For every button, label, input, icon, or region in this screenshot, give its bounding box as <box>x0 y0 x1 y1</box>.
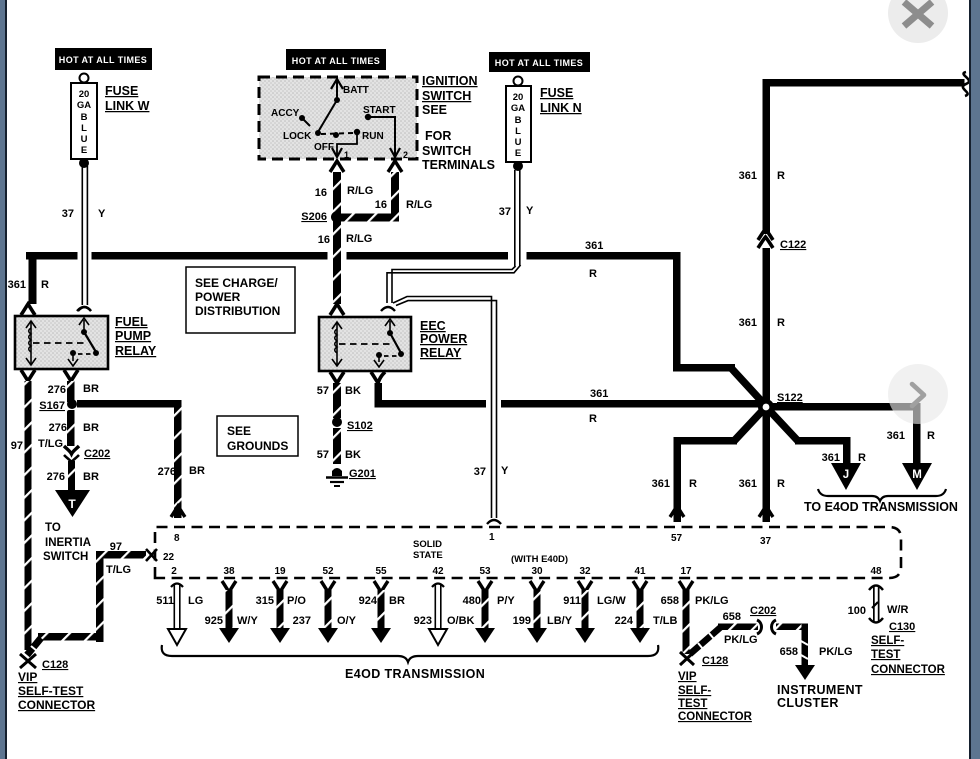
svg-text:SELF-TEST: SELF-TEST <box>18 684 84 698</box>
svg-text:TO: TO <box>45 522 61 534</box>
svg-text:SWITCH: SWITCH <box>422 144 471 158</box>
svg-text:R: R <box>689 478 697 490</box>
label 361 R (above terminal 57) <box>652 478 697 490</box>
svg-text:315: 315 <box>256 595 274 607</box>
label 276 BR (lower) <box>47 471 99 483</box>
svg-text:P/O: P/O <box>287 595 306 607</box>
svg-text:VIP: VIP <box>678 671 697 683</box>
svg-text:BK: BK <box>345 385 361 397</box>
box SEE GROUNDS <box>217 416 298 456</box>
wire 658 PK/LG diagonal C128 to C202 <box>690 626 722 654</box>
label 361 R (upper middle) <box>585 240 603 280</box>
svg-text:C130: C130 <box>889 621 915 633</box>
svg-text:IGNITION: IGNITION <box>422 74 478 88</box>
svg-text:FOR: FOR <box>425 129 451 143</box>
svg-text:B: B <box>81 112 88 123</box>
terminal 48 white wire 100 W/R to C130 <box>848 566 909 623</box>
connector C122 <box>758 229 806 251</box>
label 37 Y (to terminal 1) <box>474 465 509 478</box>
terminal 37 pin <box>759 506 773 517</box>
svg-text:S167: S167 <box>39 400 65 412</box>
terminal 32 wire 911 LG/W <box>563 566 626 643</box>
wire 57 BK relay to S102 <box>333 383 341 418</box>
svg-text:CONNECTOR: CONNECTOR <box>678 711 753 723</box>
fuel pump relay dashed link <box>33 342 88 344</box>
label 57 BK (lower) <box>317 449 361 461</box>
white wire elbow to EEC relay top-right pin <box>387 265 521 303</box>
ignition switch terminal 2 pin <box>388 161 402 172</box>
svg-text:HOT AT ALL TIMES: HOT AT ALL TIMES <box>292 56 380 66</box>
label VIP SELF-TEST CONNECTOR (right) <box>678 671 753 723</box>
svg-text:R: R <box>858 452 866 464</box>
svg-text:POWER: POWER <box>420 332 467 346</box>
terminal 52 wire 237 O/Y <box>293 566 357 643</box>
svg-text:20: 20 <box>513 92 524 103</box>
wire 276 BR relay to S167 <box>67 381 75 402</box>
svg-text:R/LG: R/LG <box>346 233 372 245</box>
svg-text:EEC: EEC <box>420 319 446 333</box>
ground G201 <box>326 468 376 486</box>
svg-text:W/Y: W/Y <box>237 615 258 627</box>
svg-text:E4OD TRANSMISSION: E4OD TRANSMISSION <box>345 667 485 681</box>
svg-text:START: START <box>363 105 396 116</box>
fuel pump relay bottom-left pin <box>21 370 35 381</box>
svg-text:199: 199 <box>513 615 531 627</box>
wire 361 R diagonal into S122 <box>732 369 766 406</box>
svg-text:(WITH E40D): (WITH E40D) <box>511 554 568 565</box>
svg-text:LB/Y: LB/Y <box>547 615 573 627</box>
svg-text:SEE: SEE <box>227 424 251 438</box>
svg-text:RUN: RUN <box>362 131 384 142</box>
svg-text:48: 48 <box>870 566 882 577</box>
svg-text:2: 2 <box>171 566 177 577</box>
label 276 BR (to terminal 8) <box>158 465 205 478</box>
svg-text:PK/LG: PK/LG <box>819 646 853 658</box>
svg-text:Y: Y <box>98 208 106 220</box>
svg-text:HOT AT ALL TIMES: HOT AT ALL TIMES <box>59 55 147 65</box>
label SELF-TEST CONNECTOR (C130) <box>871 635 946 676</box>
terminal 41 wire 224 T/LB <box>615 566 678 643</box>
label 37 Y (fuse link N wire) <box>499 205 534 218</box>
svg-text:GA: GA <box>77 100 91 111</box>
wire 361 R upper horizontal (segment 2) <box>347 252 509 260</box>
svg-text:41: 41 <box>634 566 646 577</box>
svg-text:R: R <box>589 413 597 425</box>
EEC relay top-right pin <box>381 307 395 311</box>
fuel pump relay switch <box>68 318 99 366</box>
svg-text:T/LG: T/LG <box>106 564 131 576</box>
svg-text:361: 361 <box>8 279 26 291</box>
wire 361 R right corner down <box>673 252 681 371</box>
svg-text:FUSE: FUSE <box>540 86 573 100</box>
terminal 55 wire 924 BR <box>359 566 405 643</box>
label SOLID STATE <box>413 539 443 561</box>
label 37 Y (fuse link W wire) <box>62 208 106 220</box>
label FUEL PUMP RELAY <box>115 315 157 358</box>
wire 361 R S122 SW diagonal branch to terminal 57 <box>674 409 765 522</box>
svg-text:16: 16 <box>318 234 330 246</box>
wire 97 T/LG outer vertical <box>25 381 32 650</box>
svg-text:POWER: POWER <box>195 290 241 304</box>
brace E4OD transmission <box>162 645 659 662</box>
svg-text:SWITCH: SWITCH <box>43 551 88 563</box>
svg-text:53: 53 <box>479 566 491 577</box>
ignition switch terminal 1 pin <box>330 161 344 172</box>
ignition switch internals <box>271 79 408 160</box>
svg-text:R/LG: R/LG <box>347 185 373 197</box>
connector squiggle at right edge <box>963 72 969 96</box>
fuel pump relay bottom-right pin <box>64 370 78 381</box>
HOT AT ALL TIMES badge 3 <box>489 52 590 72</box>
svg-text:2: 2 <box>403 150 408 160</box>
wire 16 R/LG S206 to EEC relay <box>333 221 341 304</box>
arrow J to E4OD transmission <box>831 463 861 490</box>
terminal 22 pin <box>146 549 175 563</box>
svg-text:SEE CHARGE/: SEE CHARGE/ <box>195 276 278 290</box>
label INSTRUMENT CLUSTER <box>777 683 863 710</box>
label TO INERTIA SWITCH <box>43 522 91 563</box>
wire 361 R upper horizontal (segment 1a) <box>26 252 78 260</box>
EEC relay coil <box>332 322 342 366</box>
svg-text:C128: C128 <box>42 659 68 671</box>
svg-text:237: 237 <box>293 615 311 627</box>
wire 361 R main vertical (top segment) <box>763 79 771 234</box>
white wire fuse link N down (37 Y) <box>514 170 521 266</box>
svg-text:R: R <box>777 478 785 490</box>
label 16 R/LG (right elbow) <box>375 199 433 211</box>
svg-text:925: 925 <box>205 615 223 627</box>
svg-text:LINK W: LINK W <box>105 99 150 113</box>
wire 361 R S122 down to terminal 37 <box>763 412 771 522</box>
terminal 30 wire 199 LB/Y <box>513 566 573 643</box>
label 97 T/LG (inner) <box>106 541 131 576</box>
splice S206 <box>301 211 342 223</box>
svg-text:TO E4OD TRANSMISSION: TO E4OD TRANSMISSION <box>804 500 958 514</box>
svg-text:TEST: TEST <box>871 649 900 661</box>
box SEE CHARGE/POWER DISTRIBUTION <box>186 267 295 333</box>
svg-text:224: 224 <box>615 615 634 627</box>
svg-text:361: 361 <box>739 478 757 490</box>
svg-text:42: 42 <box>432 566 444 577</box>
svg-text:658: 658 <box>723 611 741 623</box>
label 361 R (at J) <box>822 452 866 464</box>
E4OD solid state connector box <box>155 527 901 578</box>
terminal 57 pin <box>670 506 684 517</box>
wire 37 Y from fuse link W to fuel pump relay <box>78 166 91 311</box>
svg-text:R: R <box>589 268 597 280</box>
svg-text:SEE: SEE <box>422 103 447 117</box>
label VIP SELF-TEST CONNECTOR (left) <box>18 670 95 712</box>
svg-text:T/LB: T/LB <box>653 615 677 627</box>
fuel pump relay box <box>15 316 108 369</box>
terminal 53 wire 480 P/Y <box>463 566 516 643</box>
svg-text:276: 276 <box>158 466 176 478</box>
svg-text:8: 8 <box>174 533 180 544</box>
svg-text:W/R: W/R <box>887 604 908 616</box>
splice S122 junction dot <box>758 392 803 415</box>
wire 361 R S122 east branch to M <box>766 403 921 465</box>
label FUSE LINK W <box>105 84 150 113</box>
white wire branch to connector terminal 1 (37 Y) <box>393 297 497 519</box>
EEC relay dashed link <box>339 343 392 345</box>
fuse link N <box>506 77 531 172</box>
svg-text:FUSE: FUSE <box>105 84 138 98</box>
label 276 BR (above S167) <box>48 383 99 396</box>
connector C128 (left) <box>20 654 68 671</box>
svg-text:GA: GA <box>511 103 525 114</box>
connector C202 (right) <box>757 620 776 634</box>
svg-text:BK: BK <box>345 449 361 461</box>
svg-text:BR: BR <box>83 422 99 434</box>
svg-text:TERMINALS: TERMINALS <box>422 158 495 172</box>
wire 97 T/LG terminal 22 elbow to C128 <box>27 551 146 655</box>
wire 361 R left vertical to fuel pump relay <box>29 253 37 304</box>
svg-text:S206: S206 <box>301 211 327 223</box>
svg-text:STATE: STATE <box>413 550 443 561</box>
EEC power relay box <box>319 317 411 371</box>
svg-text:BR: BR <box>83 383 99 395</box>
svg-text:361: 361 <box>739 317 757 329</box>
svg-text:361: 361 <box>590 388 608 400</box>
svg-text:1: 1 <box>344 150 349 160</box>
fuel pump relay coil <box>26 321 36 365</box>
svg-text:57: 57 <box>317 385 329 397</box>
svg-text:923: 923 <box>414 615 432 627</box>
splice S102 <box>332 417 373 432</box>
svg-text:C128: C128 <box>702 655 728 667</box>
svg-text:57: 57 <box>317 449 329 461</box>
svg-text:O/Y: O/Y <box>337 615 357 627</box>
label 276 BR (below S167) <box>49 422 99 434</box>
svg-text:17: 17 <box>680 566 692 577</box>
wire 276 BR S167 to C202 <box>67 410 75 446</box>
wire 361 R S122 SE diagonal branch to J <box>769 410 851 465</box>
right page border bar <box>969 0 971 759</box>
svg-text:100: 100 <box>848 605 866 617</box>
svg-text:C202: C202 <box>84 448 110 460</box>
svg-text:S102: S102 <box>347 420 373 432</box>
left page border bar <box>0 0 5 759</box>
svg-text:BR: BR <box>83 471 99 483</box>
svg-text:B: B <box>515 115 522 126</box>
svg-text:P/Y: P/Y <box>497 595 515 607</box>
svg-text:L: L <box>81 123 87 134</box>
wire 658 PK/LG C202 to instrument cluster <box>776 624 815 681</box>
svg-text:DISTRIBUTION: DISTRIBUTION <box>195 304 280 318</box>
wire 361 R corner horizontal to S122 diagonal <box>673 364 735 372</box>
svg-text:U: U <box>81 134 88 145</box>
svg-text:R: R <box>927 430 935 442</box>
label EEC POWER RELAY <box>420 319 467 360</box>
svg-text:G201: G201 <box>349 468 376 480</box>
wire 57 BK S102 to G201 <box>333 428 341 464</box>
svg-text:BATT: BATT <box>343 85 369 96</box>
svg-text:SELF-: SELF- <box>678 685 711 697</box>
label 361 R (upper right vertical) <box>739 170 785 182</box>
EEC relay bottom-left pin <box>330 372 344 383</box>
svg-text:LG: LG <box>188 595 203 607</box>
svg-text:ACCY: ACCY <box>271 108 300 119</box>
fuel pump relay top-left pin <box>21 304 35 315</box>
svg-text:S122: S122 <box>777 392 803 404</box>
svg-text:276: 276 <box>48 384 66 396</box>
svg-text:658: 658 <box>780 646 798 658</box>
svg-text:FUEL: FUEL <box>115 315 148 329</box>
terminal 8 pin <box>171 506 185 517</box>
svg-text:361: 361 <box>652 478 670 490</box>
wire 361 R lower horizontal (segment 1) <box>375 400 487 408</box>
svg-text:37: 37 <box>760 536 772 547</box>
svg-text:CLUSTER: CLUSTER <box>777 696 839 710</box>
svg-text:480: 480 <box>463 595 481 607</box>
label 16 R/LG (lower) <box>318 233 373 246</box>
svg-text:97: 97 <box>11 440 23 452</box>
svg-text:16: 16 <box>375 199 387 211</box>
fuse link W <box>71 74 97 169</box>
fuel pump relay top-right pin <box>77 307 91 311</box>
svg-text:R: R <box>777 170 785 182</box>
brace under J and M <box>818 489 946 501</box>
svg-text:PK/LG: PK/LG <box>695 595 729 607</box>
svg-text:Y: Y <box>501 465 509 477</box>
svg-text:924: 924 <box>359 595 378 607</box>
svg-text:PUMP: PUMP <box>115 329 151 343</box>
label 16 R/LG (upper left) <box>315 185 374 199</box>
label 361 R (at M) <box>887 430 935 442</box>
svg-text:Y: Y <box>526 205 534 217</box>
svg-text:361: 361 <box>887 430 905 442</box>
terminal 19 wire 315 P/O <box>256 566 307 643</box>
svg-text:CONNECTOR: CONNECTOR <box>871 664 946 676</box>
wire 276 BR S167 elbow to connector terminal 8 <box>77 400 182 518</box>
EEC relay switch <box>374 319 404 367</box>
label 658 C202 PK/LG (diagonal) <box>723 605 777 646</box>
svg-text:LINK N: LINK N <box>540 101 582 115</box>
arrow M to E4OD transmission <box>902 463 932 490</box>
svg-text:19: 19 <box>274 566 286 577</box>
svg-text:RELAY: RELAY <box>115 344 157 358</box>
wire 361 R upper horizontal (segment 3) <box>527 252 681 260</box>
svg-text:TEST: TEST <box>678 698 707 710</box>
svg-text:511: 511 <box>156 595 174 607</box>
label FUSE LINK N <box>540 86 582 115</box>
svg-text:52: 52 <box>322 566 334 577</box>
svg-text:1: 1 <box>489 532 495 543</box>
wire 361 R upper horizontal (segment 1b) <box>92 252 328 260</box>
svg-text:O/BK: O/BK <box>447 615 475 627</box>
svg-text:L: L <box>515 126 521 137</box>
arrow T to inertia switch <box>55 490 90 517</box>
svg-text:SWITCH: SWITCH <box>422 89 471 103</box>
wire 361 R main vertical (C122 to S122) <box>763 248 771 400</box>
svg-text:37: 37 <box>474 466 486 478</box>
svg-text:30: 30 <box>531 566 543 577</box>
wire 361 R lower horizontal (segment 2) <box>501 400 766 408</box>
svg-text:97: 97 <box>110 541 122 553</box>
label 361 R (above terminal 37) <box>739 478 785 490</box>
svg-text:T/LG: T/LG <box>38 438 63 450</box>
svg-text:U: U <box>515 137 522 148</box>
svg-text:37: 37 <box>62 208 74 220</box>
label 361 R (mid right vertical) <box>739 317 785 329</box>
svg-text:20: 20 <box>79 89 90 100</box>
svg-text:RELAY: RELAY <box>420 346 462 360</box>
connector C202 (left) <box>64 446 110 462</box>
terminal 17 wire 658 PK/LG <box>661 566 729 654</box>
wire 361 R top horizontal <box>763 79 965 87</box>
svg-text:C122: C122 <box>780 239 806 251</box>
label IGNITION SWITCH SEE FOR SWITCH TERMINALS <box>422 74 495 172</box>
svg-text:LOCK: LOCK <box>283 131 312 142</box>
label 361 R (far left) <box>8 279 49 291</box>
ignition switch box <box>259 77 417 159</box>
svg-text:OFF: OFF <box>314 142 334 153</box>
svg-text:T: T <box>68 497 76 511</box>
svg-text:BR: BR <box>389 595 405 607</box>
EEC relay bottom-right pin <box>371 372 385 383</box>
svg-text:PK/LG: PK/LG <box>724 634 758 646</box>
svg-text:658: 658 <box>661 595 679 607</box>
splice S167 <box>39 399 77 412</box>
HOT AT ALL TIMES badge 1 <box>55 48 152 70</box>
svg-text:16: 16 <box>315 187 327 199</box>
svg-text:VIP: VIP <box>18 670 37 684</box>
svg-text:38: 38 <box>223 566 235 577</box>
svg-text:37: 37 <box>499 206 511 218</box>
svg-text:GROUNDS: GROUNDS <box>227 439 288 453</box>
svg-text:SOLID: SOLID <box>413 539 442 550</box>
svg-text:LG/W: LG/W <box>597 595 626 607</box>
svg-text:BR: BR <box>189 465 205 477</box>
svg-text:276: 276 <box>49 422 67 434</box>
terminal 1 pin <box>487 520 501 524</box>
label 97 T/LG (outer) <box>11 438 63 452</box>
close button <box>888 0 948 43</box>
label 658 PK/LG (instrument cluster) <box>780 646 853 658</box>
svg-text:HOT AT ALL TIMES: HOT AT ALL TIMES <box>495 58 583 68</box>
svg-text:E: E <box>81 145 87 156</box>
svg-text:R/LG: R/LG <box>406 199 432 211</box>
svg-text:32: 32 <box>579 566 591 577</box>
terminal 38 wire 925 W/Y <box>205 566 259 643</box>
svg-text:R: R <box>777 317 785 329</box>
svg-text:22: 22 <box>163 552 175 563</box>
EEC relay top-left pin <box>330 304 344 315</box>
svg-text:INSTRUMENT: INSTRUMENT <box>777 683 863 697</box>
terminal 2 white wire 511 LG <box>156 566 203 645</box>
next page button <box>888 364 948 424</box>
svg-text:CONNECTOR: CONNECTOR <box>18 698 95 712</box>
svg-text:361: 361 <box>822 452 840 464</box>
wire 16 R/LG terminal 1 to S206 <box>333 172 341 214</box>
connector C128 (right) <box>680 652 728 667</box>
wire 361 R EEC relay feed down <box>375 383 383 407</box>
svg-text:276: 276 <box>47 471 65 483</box>
svg-text:INERTIA: INERTIA <box>45 537 91 549</box>
wire 276 BR C202 to inertia arrow <box>68 461 75 490</box>
HOT AT ALL TIMES badge 2 <box>286 49 386 70</box>
wire 16 R/LG terminal 2 elbow to S206 <box>339 172 399 222</box>
svg-text:J: J <box>843 469 849 481</box>
svg-text:M: M <box>912 469 922 481</box>
svg-text:C202: C202 <box>750 605 776 617</box>
svg-text:SELF-: SELF- <box>871 635 904 647</box>
svg-text:911: 911 <box>563 595 581 607</box>
label 361 R (lower middle) <box>589 388 608 425</box>
svg-text:55: 55 <box>375 566 387 577</box>
svg-text:E: E <box>515 148 521 159</box>
svg-text:R: R <box>41 279 49 291</box>
